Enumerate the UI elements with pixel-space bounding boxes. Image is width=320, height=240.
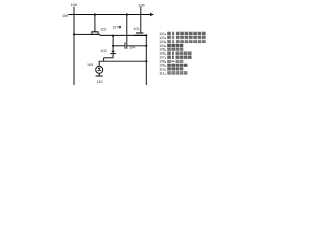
capacitor C104 left plate <box>124 42 126 48</box>
svg-text:109: 109 <box>62 14 68 18</box>
svg-text:106: 106 <box>138 3 144 7</box>
svg-text:102: 102 <box>100 27 106 31</box>
legend line 109 power supply line <box>159 63 187 67</box>
LED label 105 <box>87 63 93 67</box>
wire scan line 106 vertical <box>140 7 142 33</box>
transistor T103 label <box>100 49 106 53</box>
svg-text:103: 103 <box>100 49 106 53</box>
scan line label 106 <box>138 3 144 7</box>
legend line 105 light emitting element <box>159 48 183 52</box>
wire interconnect left segment <box>100 34 147 36</box>
transistor Q102 left leg <box>91 32 93 35</box>
legend line 108 data line <box>159 60 183 64</box>
arrowhead power line right end <box>150 13 154 17</box>
node dot power line to capacitor <box>126 13 128 15</box>
wire LED anode vertical <box>98 61 100 66</box>
transistor Q101 gate bar <box>136 32 143 34</box>
wire staircase down leg <box>103 58 105 61</box>
capacitor C104 right plate <box>126 42 128 48</box>
power line label 109 <box>62 14 68 18</box>
wire Q103 down lead <box>112 54 114 58</box>
wire Q103 to LED horizontal <box>104 57 114 59</box>
legend line 101 first transistor <box>159 32 205 36</box>
wire right vertical branch <box>145 35 147 85</box>
wire Q102 gate bar jog down <box>99 34 101 35</box>
cathode label 110 <box>97 80 103 84</box>
transistor Q102 gate bar <box>89 33 99 35</box>
node dot right branch top <box>145 34 147 36</box>
node dot right branch at anode row <box>145 60 147 62</box>
wire data line to Q102 gate <box>74 33 89 35</box>
wire data line 108 vertical <box>73 7 75 85</box>
legend line 103 third transistor <box>159 40 205 44</box>
legend line 104 storage capacitor <box>159 44 183 48</box>
LED D105 diode triangle <box>98 68 101 70</box>
wire power supply line 109 horizontal <box>69 14 151 16</box>
svg-text:101: 101 <box>133 27 139 31</box>
node dot power line to T102 <box>94 13 96 15</box>
wire LED cathode lead <box>98 73 100 76</box>
node dot right branch at storage wire <box>145 45 147 47</box>
node dot storage wire <box>112 45 114 47</box>
svg-text:111: 111 <box>159 72 164 76</box>
legend line 107 second scan line <box>159 56 191 60</box>
transistor Q102 top electrode bar <box>91 31 98 33</box>
wire storage tap vertical <box>112 35 114 50</box>
data line label 108 <box>71 3 77 7</box>
node dot data line gate wire <box>73 33 75 35</box>
legend line 110 counter electrode <box>159 67 183 71</box>
transistor Q103 triangle body <box>111 51 115 53</box>
wire power line down to T102 top electrode <box>94 15 96 32</box>
wire capacitor right plate to right branch <box>127 45 147 47</box>
transistor Q101 channel bar <box>134 34 146 36</box>
transistor T101 label <box>133 27 139 31</box>
legend block <box>159 32 205 76</box>
cathode bar electrode 110 <box>96 75 103 77</box>
legend line 106 first scan line <box>159 52 191 56</box>
wire power line down to capacitor right plate <box>126 15 128 43</box>
transistor Q102 right leg <box>97 32 99 35</box>
capacitor label 104 <box>129 46 135 50</box>
svg-text:107: 107 <box>113 26 119 30</box>
LED D105 diode bar <box>97 69 101 71</box>
svg-text:105: 105 <box>87 63 93 67</box>
wire storage node to capacitor left plate <box>113 45 125 47</box>
legend line 102 second transistor <box>159 36 205 40</box>
LED D105 circle <box>96 66 103 73</box>
transistor Q103 bottom bar <box>110 53 116 55</box>
legend line 111 pixel <box>159 71 187 75</box>
wire anode row to right branch <box>99 60 147 62</box>
svg-text:110: 110 <box>97 80 103 84</box>
transistor T102 label <box>100 27 106 31</box>
label 107 small annotation <box>113 26 121 30</box>
node dot storage tap <box>112 35 114 37</box>
